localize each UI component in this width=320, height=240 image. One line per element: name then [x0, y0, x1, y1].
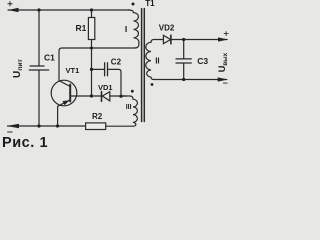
- node polarity dot winding I: [132, 3, 135, 6]
- node bottom-left arrow: [7, 124, 19, 128]
- svg-text:II: II: [155, 57, 159, 66]
- svg-text:VT1: VT1: [66, 66, 80, 75]
- node junction base: [90, 94, 93, 97]
- node minus input: [8, 131, 13, 133]
- node polarity dot winding III: [131, 90, 134, 93]
- svg-text:Рис. 1: Рис. 1: [2, 135, 48, 149]
- node junction C3 bottom: [182, 78, 185, 81]
- diode VD2: [163, 35, 170, 43]
- node junction R1/collector wire: [90, 47, 93, 50]
- node bottom-right arrow: [218, 77, 228, 81]
- svg-text:C3: C3: [197, 56, 208, 66]
- svg-text:R1: R1: [76, 23, 87, 33]
- node plus input: [8, 2, 12, 6]
- transformer T1 winding III: [106, 96, 138, 126]
- svg-text:I: I: [125, 24, 127, 34]
- svg-text:III: III: [126, 104, 132, 111]
- node junction VD1/C2/winding III: [119, 95, 122, 98]
- transistor VT1: [51, 80, 77, 106]
- svg-text:C1: C1: [44, 53, 55, 63]
- node junction C1 bottom: [37, 124, 40, 127]
- capacitor C3: [176, 40, 191, 80]
- wire top rail: [8, 9, 130, 11]
- svg-text:VD2: VD2: [159, 24, 175, 33]
- svg-text:VD1: VD1: [98, 83, 113, 92]
- node polarity dot winding II: [151, 83, 154, 86]
- resistor R1: [91, 10, 93, 96]
- transformer T1 winding II: [146, 40, 227, 80]
- capacitor C1: [29, 10, 48, 126]
- wire base: [70, 95, 101, 97]
- node top-left arrow: [8, 8, 18, 12]
- svg-text:C2: C2: [111, 58, 122, 67]
- node minus output: [223, 82, 227, 84]
- node top-right arrow: [218, 37, 228, 41]
- svg-text:T1: T1: [145, 0, 155, 8]
- svg-text:R2: R2: [92, 112, 103, 121]
- node junction top R1: [90, 8, 93, 11]
- transformer T1 core: [142, 9, 145, 122]
- node junction top C1: [37, 8, 40, 11]
- node plus output: [224, 32, 228, 36]
- resistor R2: [8, 125, 86, 127]
- diode VD1: [101, 92, 103, 102]
- capacitor C2: [105, 63, 108, 76]
- wire collector to winding I: [59, 48, 136, 81]
- node junction C2: [90, 68, 93, 71]
- transformer T1 winding I: [129, 10, 139, 48]
- node junction C3 top: [182, 38, 185, 41]
- node junction emitter bottom: [56, 124, 59, 127]
